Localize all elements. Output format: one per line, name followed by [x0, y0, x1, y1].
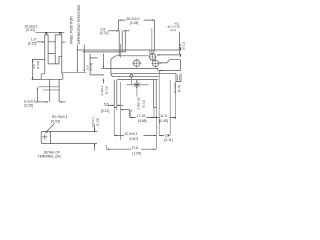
dimension label 10.3±0.2 [0.41] [24, 24, 37, 31]
svg-text:[0.11]: [0.11] [181, 42, 185, 50]
free position level line [77, 49, 181, 51]
svg-text:[0.11]: [0.11] [164, 138, 172, 142]
svg-text:[0.2]: [0.2] [171, 28, 176, 32]
left view part outline [41, 35, 63, 79]
svg-text:[0.41]: [0.41] [177, 85, 181, 92]
svg-text:[0.45]: [0.45] [159, 119, 168, 123]
body outline [102, 56, 181, 80]
arrow to free position line [77, 45, 78, 73]
dimension 22.2±0.1 [0.87] [114, 132, 156, 141]
svg-text:FREE POSITION: FREE POSITION [69, 16, 73, 44]
svg-text:[0.15]: [0.15] [36, 61, 40, 69]
svg-text:11.5: 11.5 [160, 114, 166, 118]
terminal cross-section [41, 132, 50, 144]
svg-text:TERMINAL (3X): TERMINAL (3X) [38, 154, 61, 158]
svg-text:[0.11]: [0.11] [100, 31, 108, 35]
dimension 4.5±0.1 [0.18] rotated [51, 117, 100, 151]
svg-text:[0.87]: [0.87] [130, 137, 139, 141]
left dimension 3.4±0.1 [0.13] rotated [100, 54, 108, 96]
dimension 26.2±0.2 [1.03] [119, 17, 155, 50]
plunger [119, 31, 122, 58]
svg-text:17.15: 17.15 [137, 114, 146, 118]
dimension 27.8 [1.09] [107, 146, 156, 155]
caption DETAIL OF TERMINAL (3X) [38, 151, 61, 159]
svg-text:5.5: 5.5 [104, 102, 109, 106]
terminal 1 [114, 80, 117, 108]
terminal 2 [154, 80, 157, 108]
operating position level line [83, 51, 126, 53]
svg-text:[0.13]: [0.13] [89, 63, 93, 71]
terminal 3 box [176, 73, 181, 81]
svg-text:27.8: 27.8 [132, 146, 139, 150]
svg-text:4.5±0.1: 4.5±0.1 [91, 117, 95, 128]
mechanism circles top right [149, 50, 160, 67]
dimension 6.3±0.1 [0.25] [24, 87, 65, 108]
dimension 17.15 [0.68] [130, 114, 154, 123]
svg-text:2.8±0.05: 2.8±0.05 [137, 97, 141, 109]
dimension 2.8 [0.11] rotated right side [178, 42, 186, 50]
arrow to operating position line [84, 45, 85, 73]
svg-text:[1.09]: [1.09] [133, 152, 142, 156]
label ø5.1 +0.1/-0.05 [0.2] [157, 21, 180, 55]
svg-text:[0.68]: [0.68] [138, 119, 147, 123]
svg-text:4: 4 [130, 109, 132, 113]
small dim 4 near plunger ext [120, 109, 132, 118]
label R0.75±0.1 [0.03] [45, 115, 68, 133]
dimension 3.8 [0.15] rotated [32, 60, 45, 80]
svg-text:[1.03]: [1.03] [130, 21, 139, 25]
dimension 1.9 [0.15] [28, 38, 65, 46]
left view terminal [38, 79, 59, 102]
svg-text:[0.11]: [0.11] [141, 100, 145, 108]
dimension 11.5 [0.45] [154, 114, 176, 123]
svg-text:22.2±0.1: 22.2±0.1 [124, 132, 137, 136]
svg-text:[0.25]: [0.25] [25, 103, 34, 107]
svg-text:[0.15]: [0.15] [28, 42, 37, 46]
hole 2 center mark [126, 74, 148, 88]
svg-text:OPERATING POSITION: OPERATING POSITION [77, 5, 81, 44]
top right leader lines [152, 28, 181, 64]
extension lines to chain [107, 73, 181, 149]
dimension 2.8±0.05 [0.11] rotated [137, 89, 146, 110]
svg-text:[0.18]: [0.18] [96, 118, 100, 126]
svg-text:[0.21]: [0.21] [101, 109, 110, 113]
dimension 2.8 [0.11] plunger [100, 27, 129, 52]
svg-text:[0.41]: [0.41] [26, 28, 35, 32]
mounting hole 1 [132, 59, 141, 68]
svg-text:[0.13]: [0.13] [104, 86, 108, 94]
svg-text:[0.03]: [0.03] [51, 119, 60, 123]
dimension line 10.3 [36, 32, 65, 35]
dimension 2.8 [0.11] bottom right [159, 133, 172, 142]
svg-text:ø5.1−0.05: ø5.1−0.05 [168, 24, 181, 28]
dimension 5.5 [0.21] [101, 102, 124, 113]
